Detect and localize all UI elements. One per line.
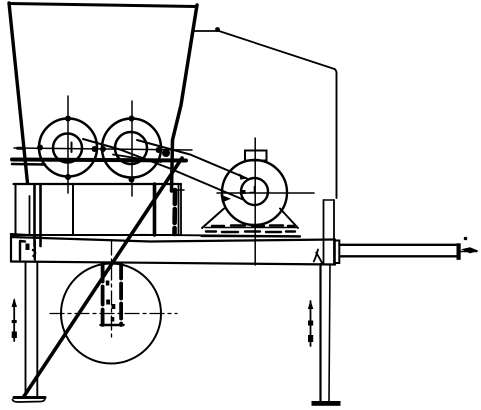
beam bottom edge — [11, 262, 335, 265]
motor outer circle — [222, 160, 287, 225]
motor vertical centerline — [254, 138, 256, 265]
centerline dot f — [129, 116, 135, 122]
belt upper line — [137, 140, 247, 179]
hub bottom edge — [101, 324, 124, 326]
housing mid bar — [72, 184, 74, 235]
roller right inner circle — [115, 132, 147, 164]
right foot plate — [312, 401, 341, 406]
motor base bottom edge — [202, 235, 301, 238]
centerline dot e — [100, 146, 106, 152]
right adjust arrow — [310, 301, 312, 346]
belt upper end arrowhead — [239, 174, 248, 180]
roller left outer circle — [39, 119, 97, 177]
motor base right slant — [280, 209, 298, 229]
roller right outer circle — [102, 119, 161, 178]
roller left inner circle — [53, 134, 82, 163]
housing right edge — [179, 185, 182, 235]
guard sloped top — [219, 31, 335, 69]
belt fragment tick — [177, 189, 185, 191]
wheel vertical centerline — [111, 241, 113, 338]
shaft end bar — [457, 243, 461, 259]
hub right bar — [119, 264, 123, 326]
pulley left tick — [241, 190, 246, 194]
weld mark lambda — [314, 250, 323, 264]
housing top edge — [14, 183, 182, 185]
centerline dot b — [65, 116, 71, 122]
shaft dot — [464, 237, 468, 241]
diagonal brace — [24, 158, 183, 397]
housing dark bar 2 — [153, 184, 157, 235]
left leg inner — [36, 262, 38, 397]
rollers horizontal centerline — [14, 148, 192, 150]
right post left edge — [323, 200, 325, 263]
shaft bottom line — [340, 255, 457, 257]
frame top rail stub — [12, 163, 45, 166]
shaft top line — [340, 244, 457, 246]
housing jack line — [29, 196, 31, 234]
housing bottom edge — [11, 234, 181, 236]
left foot dish — [14, 396, 45, 399]
hopper left edge — [9, 3, 28, 183]
centerline start serif — [18, 147, 23, 150]
hitch bracket dot — [26, 244, 30, 251]
motor base bottom extension — [140, 235, 300, 236]
motor base left slant — [202, 209, 224, 229]
left roller hub tick — [71, 143, 73, 153]
left adjust arrow — [13, 300, 15, 341]
right leg outer — [319, 264, 321, 402]
centerline dot a — [37, 145, 43, 151]
hub left bar — [101, 264, 105, 326]
hitch bracket glyph — [20, 241, 35, 260]
hopper right edge hidden dashed — [172, 190, 177, 234]
centerline dot g — [129, 177, 135, 183]
motor terminal box — [245, 151, 267, 161]
belt lower line — [83, 139, 243, 200]
centerline dot c — [65, 174, 71, 180]
right post right edge — [333, 200, 335, 263]
motor base hatch — [206, 226, 295, 233]
hopper top edge — [9, 4, 196, 7]
guard dot — [215, 27, 220, 32]
shaft tip point — [461, 247, 479, 253]
right leg inner — [329, 264, 330, 402]
shaft flange — [335, 241, 340, 264]
guard top horizontal — [193, 30, 219, 32]
centerline dot h — [156, 147, 162, 153]
right post top tick — [324, 199, 335, 201]
roller right vertical centerline — [131, 101, 133, 196]
beam top edge — [11, 237, 335, 242]
motor horizontal centerline — [217, 192, 314, 194]
motor keyway mark — [250, 187, 255, 193]
wheel circle — [61, 264, 161, 364]
beam left cap vertical — [10, 234, 12, 262]
housing dark bar 1 — [35, 185, 41, 246]
motor base top line — [205, 227, 296, 229]
junction blob — [162, 149, 170, 157]
left leg outer — [25, 262, 27, 397]
hub inner blobs — [106, 281, 110, 286]
beam left cap top — [11, 234, 38, 236]
belt arrowhead — [221, 195, 232, 203]
housing left edge — [15, 184, 17, 234]
belt lower fragment — [113, 155, 161, 163]
wheel horizontal centerline — [50, 313, 177, 315]
centerline dot d — [92, 146, 98, 152]
roller left vertical centerline — [67, 96, 69, 193]
guard right vertical — [335, 69, 337, 198]
hopper right edge — [172, 5, 198, 191]
frame top rail — [12, 160, 186, 161]
motor pulley inner circle — [241, 178, 268, 205]
